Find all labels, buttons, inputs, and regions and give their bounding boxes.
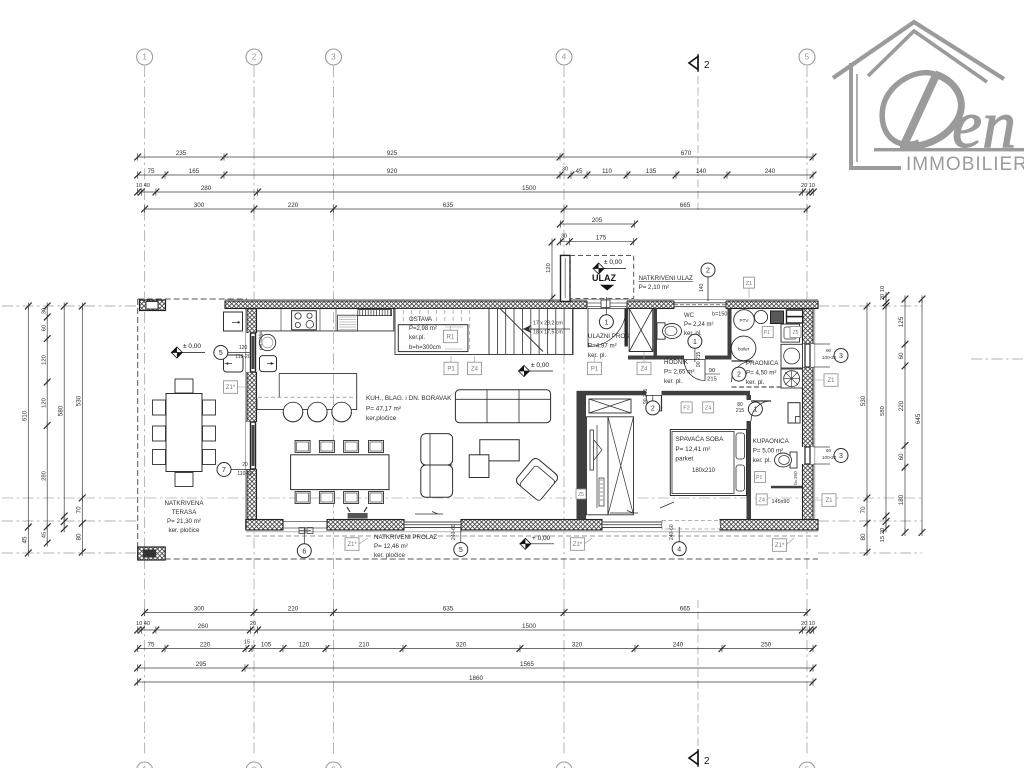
- grid axis vertical lines 1-5: [144, 66, 146, 757]
- svg-text:b=150: b=150: [793, 471, 799, 485]
- label box Z4 kupaonica: [756, 494, 767, 505]
- interior wall bedroom top: [586, 391, 750, 396]
- dimension line 205 above entrance: [557, 217, 638, 228]
- bedroom wardrobe X tall: [608, 417, 634, 515]
- svg-text:120: 120: [546, 263, 552, 273]
- svg-text:1860: 1860: [469, 675, 484, 682]
- svg-text:P1´: P1´: [764, 330, 772, 336]
- svg-text:215: 215: [707, 377, 717, 383]
- svg-text:2: 2: [704, 60, 710, 71]
- dishwasher hatched: [338, 315, 358, 331]
- window right wall (praonica): [802, 344, 815, 367]
- svg-text:665: 665: [680, 202, 691, 209]
- svg-text:ker. pločice: ker. pločice: [169, 527, 201, 534]
- bar stools: [283, 402, 303, 422]
- dashed line below bottom wall: [246, 535, 818, 537]
- dimension line left C: 580 15 20: [57, 302, 67, 532]
- window right wall (kupaonica): [802, 447, 815, 464]
- section circle 3 right wall bottom: [834, 449, 848, 463]
- svg-text:4: 4: [562, 53, 567, 62]
- kupaonica label: [753, 438, 790, 464]
- svg-text:ULAZ: ULAZ: [592, 273, 616, 283]
- svg-text:Z1*: Z1*: [226, 385, 236, 391]
- label box Z4 bedroom: [703, 402, 714, 413]
- level mark porch: [593, 259, 626, 274]
- section circle 1 wc: [688, 334, 702, 348]
- section circle 2 hodnik door: [732, 367, 746, 381]
- svg-text:+ 0,00: + 0,00: [532, 535, 551, 542]
- svg-text:17 x 28,2 cm: 17 x 28,2 cm: [533, 321, 563, 327]
- svg-text:220: 220: [200, 641, 211, 648]
- svg-text:P= 4,50 m²: P= 4,50 m²: [746, 370, 776, 377]
- svg-text:TERASA: TERASA: [172, 509, 198, 516]
- grid circles top: [137, 49, 153, 65]
- svg-text:3: 3: [839, 353, 843, 360]
- svg-text:Z5: Z5: [578, 492, 584, 498]
- kitchen sink square: [260, 356, 277, 372]
- door jamb wall right of entrance door: [625, 309, 629, 347]
- svg-text:P1´: P1´: [756, 475, 764, 481]
- svg-text:P1: P1: [447, 367, 455, 373]
- svg-text:NATKRIVENI PROLAZ: NATKRIVENI PROLAZ: [374, 534, 437, 541]
- section marker triangle 2 bottom: [689, 600, 710, 767]
- svg-text:140: 140: [699, 283, 705, 292]
- terrace corner pillar top-left: [140, 300, 166, 311]
- washing machine: [781, 344, 803, 368]
- label box F2 bedroom: [681, 402, 692, 413]
- svg-text:ker. pl.: ker. pl.: [588, 352, 607, 359]
- exterior wall right: [803, 309, 814, 531]
- svg-text:2: 2: [706, 268, 710, 275]
- svg-text:± 0,00: ± 0,00: [604, 259, 622, 266]
- bedroom closet tall left: [587, 417, 609, 515]
- dimension line right C: 125 60 220 60 180: [898, 295, 908, 536]
- svg-text:10 40: 10 40: [136, 621, 150, 627]
- dimension line top 2: 75 165 920 30 45 110 135 140 240: [134, 168, 816, 179]
- svg-text:205: 205: [592, 217, 603, 224]
- svg-text:15: 15: [244, 640, 250, 646]
- svg-text:PTV: PTV: [740, 318, 750, 323]
- horizontal axis dash-dot stubs: [2, 305, 137, 307]
- svg-text:530: 530: [76, 395, 83, 406]
- ostava label: [409, 317, 441, 351]
- svg-text:Z1: Z1: [825, 498, 833, 504]
- svg-text:220: 220: [288, 605, 299, 612]
- label box P1 kupaonica: [755, 472, 766, 483]
- svg-text:20 10: 20 10: [880, 286, 886, 301]
- svg-text:80: 80: [76, 533, 83, 541]
- svg-text:925: 925: [387, 150, 398, 157]
- terrace door sill in bottom wall: [283, 521, 327, 523]
- svg-text:105: 105: [261, 641, 272, 648]
- logo house icon: [833, 22, 1004, 168]
- svg-text:P1: P1: [591, 367, 599, 373]
- stove with 4 burners: [292, 311, 317, 330]
- label box Z1* prolaz left: [345, 538, 359, 551]
- interior wall wc right / entrance: [654, 309, 658, 356]
- section circle 6 bottom: [297, 544, 311, 558]
- terrace dining table: [166, 394, 202, 472]
- svg-text:P=4,97 m²: P=4,97 m²: [588, 343, 617, 350]
- svg-text:NATKRIVENA: NATKRIVENA: [164, 500, 204, 507]
- svg-text:P=2,98 m²: P=2,98 m²: [409, 326, 437, 332]
- svg-text:P= 47,17 m²: P= 47,17 m²: [366, 406, 401, 413]
- entrance door leaf: [625, 309, 627, 347]
- bedroom label: [675, 434, 724, 463]
- svg-text:100-20: 100-20: [822, 455, 837, 460]
- svg-text:220: 220: [288, 202, 299, 209]
- label box R1: [444, 330, 458, 343]
- dimension line bottom 5: 1860: [134, 675, 816, 686]
- svg-text:665: 665: [680, 605, 691, 612]
- dimension line left A: 610 45: [22, 302, 32, 556]
- porch side wall: [561, 255, 571, 301]
- svg-text:± 0,00: ± 0,00: [531, 362, 549, 369]
- svg-text:530: 530: [860, 395, 867, 406]
- section circle 1 entrance axis: [605, 297, 607, 315]
- label box Z1* prolaz mid: [570, 538, 584, 551]
- svg-text:110-20: 110-20: [235, 354, 250, 360]
- svg-text:1500: 1500: [522, 185, 537, 192]
- svg-text:120: 120: [239, 345, 248, 351]
- wc door arc: [684, 360, 705, 381]
- svg-text:Z1: Z1: [746, 281, 752, 287]
- window opening in top wall above WC: [674, 300, 726, 309]
- svg-text:SPAVAĆA SOBA: SPAVAĆA SOBA: [675, 434, 724, 443]
- label box P1 wc: [762, 327, 773, 338]
- rotated armchair: [514, 456, 559, 501]
- svg-text:P= 2,65 m²: P= 2,65 m²: [664, 369, 694, 376]
- ostava room box: [398, 325, 468, 352]
- svg-text:P= 2,10 m²: P= 2,10 m²: [639, 284, 669, 291]
- svg-text:KUH., BLAG. i DN. BORAVAK: KUH., BLAG. i DN. BORAVAK: [366, 395, 452, 402]
- section circle 2 bedroom door: [646, 401, 660, 415]
- terrace door swing marks: [299, 528, 305, 534]
- entrance door arc: [588, 309, 626, 347]
- bedroom door arc: [646, 396, 662, 412]
- svg-text:100-20: 100-20: [822, 355, 837, 360]
- terrace dashed outline: [138, 298, 247, 300]
- label box Z1 right wall top: [824, 374, 838, 387]
- label box Z1 porch: [744, 277, 755, 288]
- svg-text:670: 670: [681, 150, 692, 157]
- svg-text:P= 2,24 m²: P= 2,24 m²: [684, 322, 714, 328]
- svg-text:90: 90: [709, 368, 715, 374]
- svg-text:P= 5,00 m²: P= 5,00 m²: [753, 448, 783, 455]
- armchair pair: [421, 434, 453, 465]
- svg-text:920: 920: [387, 168, 398, 175]
- bathroom sink: [788, 403, 800, 423]
- dimension line bottom 1: 300 220 635 665: [141, 605, 810, 616]
- svg-text:645: 645: [915, 413, 922, 424]
- kitchen sink round: [259, 334, 275, 350]
- label box leader lines: [237, 288, 824, 545]
- svg-text:4: 4: [677, 546, 681, 553]
- svg-text:110-20: 110-20: [237, 471, 252, 477]
- svg-text:135: 135: [646, 168, 657, 175]
- svg-text:70: 70: [76, 506, 83, 514]
- dimension line top 1: 235 925 670: [134, 150, 816, 161]
- dimension line bottom 2: 10 40 260 20 1500 20 10: [134, 623, 816, 634]
- svg-text:240-60: 240-60: [451, 524, 457, 540]
- svg-text:110: 110: [602, 168, 613, 175]
- exterior wall left: [247, 309, 257, 531]
- svg-text:Z1*: Z1*: [573, 542, 583, 548]
- svg-text:IMMOBILIER: IMMOBILIER: [906, 154, 1024, 175]
- svg-text:Z4: Z4: [705, 406, 711, 412]
- praonica label: [746, 360, 779, 386]
- interior wall wc/hall bottom: [628, 356, 732, 360]
- svg-text:45: 45: [41, 532, 47, 538]
- svg-text:235: 235: [176, 150, 187, 157]
- facade outer lines: [225, 299, 818, 301]
- svg-text:20 10: 20 10: [801, 183, 815, 189]
- dimension line top 4: 300 220 635 665: [141, 202, 810, 213]
- stair treads: [488, 309, 490, 355]
- swing arrows bottom wall: [415, 512, 443, 515]
- logo underline: [874, 148, 1024, 151]
- svg-text:5: 5: [459, 547, 463, 554]
- svg-text:18 x 17,5 cm: 18 x 17,5 cm: [533, 330, 563, 336]
- svg-text:30: 30: [561, 234, 567, 240]
- svg-text:30: 30: [41, 308, 47, 314]
- label box Z1* terrace: [224, 381, 238, 394]
- svg-text:175: 175: [596, 235, 607, 242]
- svg-text:120: 120: [41, 355, 47, 365]
- living room label: [366, 395, 452, 422]
- svg-text:320: 320: [572, 641, 583, 648]
- svg-text:1: 1: [693, 339, 697, 346]
- svg-text:20 10: 20 10: [801, 621, 815, 627]
- dimension line bottom 3: 75 220 15 105 120 210 320 320 240 250: [134, 641, 816, 652]
- svg-text:boiler: boiler: [738, 346, 750, 351]
- svg-text:90 215: 90 215: [696, 351, 702, 367]
- level mark terrace: [171, 343, 205, 358]
- svg-text:635: 635: [443, 202, 454, 209]
- bed: [670, 430, 746, 496]
- svg-text:Z4: Z4: [471, 367, 479, 373]
- svg-text:2: 2: [651, 405, 655, 412]
- dimension line right D: 645: [915, 295, 925, 536]
- svg-text:70: 70: [860, 506, 867, 514]
- svg-text:ker.pl.: ker.pl.: [409, 335, 425, 341]
- svg-text:2: 2: [737, 372, 741, 379]
- exterior wall top: [225, 301, 818, 309]
- dimension line left D: 530 70 80: [76, 302, 86, 555]
- level mark living room: [518, 362, 553, 377]
- radiator comb element: [358, 310, 392, 316]
- svg-text:60: 60: [826, 448, 832, 453]
- section circle 5 left wall: [214, 346, 228, 360]
- bathroom door arc: [751, 401, 771, 421]
- svg-text:320: 320: [456, 641, 467, 648]
- svg-text:Z5: Z5: [793, 330, 799, 336]
- svg-text:580: 580: [880, 406, 886, 416]
- svg-text:P= 12,41 m²: P= 12,41 m²: [675, 446, 710, 453]
- svg-text:60: 60: [898, 453, 905, 461]
- dining table: [291, 455, 389, 490]
- label box Z4 stairs: [468, 362, 482, 375]
- svg-text:HODNIK: HODNIK: [664, 359, 689, 366]
- svg-text:2: 2: [252, 53, 257, 62]
- bathroom toilet: [790, 452, 797, 468]
- terrace chairs: [175, 379, 193, 393]
- porch canopy dashed outline: [570, 255, 634, 298]
- svg-text:P= 21,30 m²: P= 21,30 m²: [167, 518, 201, 525]
- svg-text:60: 60: [898, 352, 905, 360]
- svg-text:5: 5: [805, 53, 810, 62]
- label box Z5 wall: [576, 489, 586, 499]
- ostava / stairs block: [395, 309, 573, 355]
- living room window in bottom wall: [404, 522, 461, 528]
- svg-text:30: 30: [562, 167, 568, 173]
- svg-text:ker. pl.: ker. pl.: [753, 457, 772, 464]
- section circle 4 bottom: [672, 542, 686, 556]
- dimension line left B: 30 60 120 120 280 45: [41, 302, 50, 546]
- svg-text:2: 2: [704, 756, 710, 767]
- svg-text:WC: WC: [684, 313, 695, 319]
- svg-text:ker. pločice: ker. pločice: [374, 552, 406, 559]
- kitchen island: [257, 374, 357, 410]
- hodnik label: [664, 359, 694, 385]
- dimension line 30 175 above entrance: [557, 235, 637, 246]
- dimension line top 3: 10 40 280 1500 20 10: [134, 185, 816, 196]
- svg-text:125: 125: [898, 316, 905, 327]
- logo Den script text: [882, 73, 961, 147]
- vertical dim 120 left of porch: [546, 238, 555, 301]
- door sill mark bottom left: [348, 513, 368, 519]
- svg-text:295: 295: [196, 661, 207, 668]
- svg-text:OSTAVA: OSTAVA: [409, 317, 432, 323]
- svg-text:P= 12,46 m²: P= 12,46 m²: [374, 543, 408, 550]
- svg-text:210: 210: [359, 641, 370, 648]
- svg-text:20: 20: [250, 621, 256, 627]
- stair diagonal cut line: [500, 309, 543, 352]
- svg-text:3: 3: [839, 453, 843, 460]
- level mark prolaz: [519, 535, 554, 549]
- dining chairs bottom row: [295, 492, 310, 504]
- praonica small cabinets top right: [771, 311, 784, 324]
- stair direction arrow: [523, 328, 570, 330]
- svg-text:90: 90: [826, 348, 832, 353]
- section circle 1 bathroom door: [748, 402, 762, 416]
- label box Z4 hall: [637, 362, 651, 375]
- interior wall living/hall: [577, 391, 587, 520]
- grid circles bottom: [137, 762, 153, 768]
- svg-text:PRAONICA: PRAONICA: [746, 360, 779, 367]
- svg-text:165: 165: [189, 168, 200, 175]
- svg-text:Z1*: Z1*: [775, 543, 785, 549]
- dining chairs top row: [295, 441, 310, 453]
- entrance door opening in top wall: [587, 300, 627, 309]
- svg-text:220: 220: [898, 400, 905, 411]
- outdoor cabinet 2: [224, 355, 244, 372]
- interior wall bedroom/bathroom: [747, 395, 752, 520]
- svg-text:10 40: 10 40: [136, 183, 150, 189]
- terrace room label: [164, 500, 204, 534]
- section circle 5 bottom: [454, 543, 468, 557]
- label box Z1* prolaz right: [773, 539, 787, 552]
- svg-text:80: 80: [860, 533, 867, 541]
- label box Z5 praonica: [790, 327, 801, 338]
- svg-text:6: 6: [302, 548, 306, 555]
- svg-text:45: 45: [575, 168, 583, 175]
- svg-text:20: 20: [242, 462, 248, 468]
- svg-text:Z1: Z1: [827, 378, 835, 384]
- praonica fixtures: PTV boiler circles: [734, 310, 755, 331]
- svg-text:240-60: 240-60: [669, 524, 675, 540]
- dryer/fan: [781, 369, 803, 388]
- svg-text:280: 280: [201, 185, 212, 192]
- svg-text:45: 45: [22, 536, 29, 544]
- label box P1 hall: [588, 362, 602, 375]
- glass door opening left wall (terrace access): [246, 422, 258, 469]
- svg-text:240: 240: [765, 168, 776, 175]
- wc label: [684, 313, 714, 337]
- dimension line right B: 20 10 580 15 20: [880, 286, 889, 543]
- svg-text:KUPAONICA: KUPAONICA: [753, 438, 790, 445]
- wc fixtures: [657, 323, 682, 339]
- svg-text:90 215: 90 215: [643, 388, 649, 404]
- svg-text:635: 635: [443, 605, 454, 612]
- svg-text:1500: 1500: [522, 623, 537, 630]
- svg-text:ker.pločice: ker.pločice: [366, 415, 397, 422]
- svg-text:610: 610: [22, 410, 29, 421]
- svg-text:120: 120: [299, 641, 310, 648]
- svg-text:180: 180: [898, 494, 905, 505]
- svg-text:NATKRIVENI ULAZ: NATKRIVENI ULAZ: [639, 275, 693, 282]
- sofa: [455, 390, 550, 423]
- svg-text:Z1*: Z1*: [347, 542, 357, 548]
- exterior wall bottom with window/door openings: [246, 520, 283, 531]
- svg-text:ker. pl.: ker. pl.: [664, 378, 683, 385]
- glass door opening left wall (kitchen): [246, 333, 258, 372]
- bedroom window in bottom wall: [602, 522, 662, 528]
- prolaz label: [374, 534, 437, 559]
- praonica bottom dashed partition: [732, 386, 803, 388]
- interior wall praonica left: [728, 309, 732, 360]
- svg-text:60: 60: [41, 325, 47, 331]
- dimension line bottom 4: 295 1565: [134, 661, 816, 672]
- svg-text:Z4: Z4: [640, 367, 648, 373]
- svg-text:140: 140: [696, 168, 707, 175]
- section circle 2 porch: [701, 263, 715, 277]
- svg-text:1: 1: [142, 53, 147, 62]
- svg-text:ker. pl.: ker. pl.: [746, 379, 765, 386]
- svg-text:280: 280: [41, 471, 47, 481]
- svg-text:parket: parket: [675, 456, 693, 463]
- section marker triangle 2 top: [689, 54, 710, 210]
- praonica door arc: [732, 361, 753, 382]
- outdoor cabinet 1: [224, 312, 243, 331]
- dimension line right A: 530 70 80: [860, 302, 870, 555]
- wardrobe X top (hall side): [589, 399, 631, 413]
- svg-text:3: 3: [331, 53, 336, 62]
- coffee tables: [480, 440, 519, 461]
- svg-text:215: 215: [736, 408, 745, 414]
- section circle 7 left wall: [217, 463, 231, 477]
- svg-text:± 0,00: ± 0,00: [183, 343, 201, 350]
- dashed boundary covered walkway: [138, 558, 818, 560]
- svg-text:580: 580: [57, 405, 64, 416]
- svg-text:180x210: 180x210: [692, 468, 716, 474]
- svg-text:b=h=300cm: b=h=300cm: [409, 345, 441, 351]
- svg-text:1: 1: [604, 319, 608, 326]
- label box Z1 right wall bottom: [822, 494, 836, 507]
- label box P1 stairs: [444, 362, 458, 375]
- svg-text:F2: F2: [683, 406, 689, 412]
- section circle 3 right wall top: [834, 349, 848, 363]
